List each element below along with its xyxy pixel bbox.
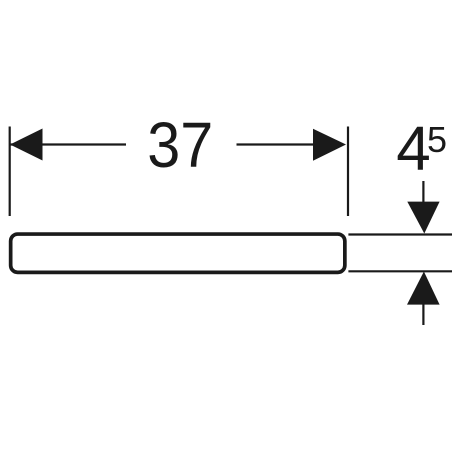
plate (product outline, side view) [11, 234, 345, 272]
dimension line 37 left segment [10, 143, 126, 145]
dimension line 37 right segment [237, 143, 314, 145]
arrowhead right (points right) [313, 129, 346, 161]
extension line plate bottom [348, 270, 452, 272]
arrowhead down (points to plate top) [407, 202, 439, 234]
svg-text:37: 37 [147, 109, 213, 181]
extension line left (width dim) [9, 127, 11, 217]
arrowhead left (points left) [10, 129, 43, 161]
leader line below up arrow [422, 304, 424, 325]
extension line right (width dim) [347, 127, 349, 217]
extension line plate top [348, 233, 452, 235]
svg-text:4: 4 [396, 114, 430, 183]
svg-text:5: 5 [427, 119, 447, 160]
arrowhead up (points to plate bottom) [407, 272, 440, 305]
leader line below 45 label [422, 181, 424, 203]
